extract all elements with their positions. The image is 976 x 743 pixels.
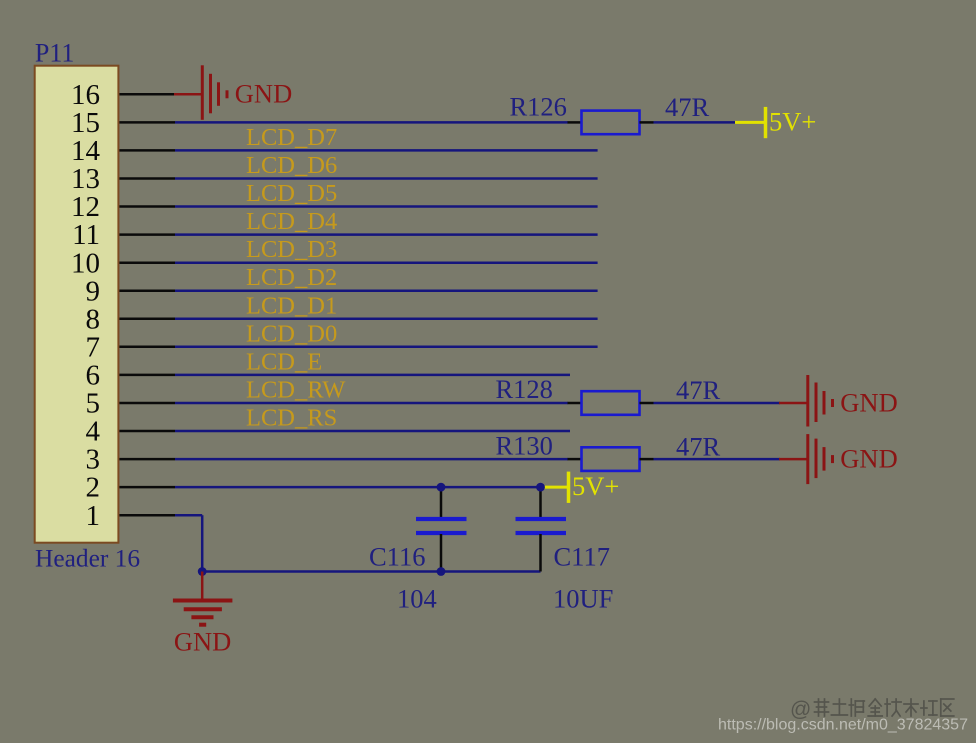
svg-text:C117: C117 <box>554 542 610 572</box>
pin 13 stub <box>119 177 175 180</box>
svg-text:LCD_RW: LCD_RW <box>246 377 346 404</box>
pin 14 stub <box>119 149 175 152</box>
svg-text:LCD_D7: LCD_D7 <box>246 124 337 151</box>
resistor R130 left pin <box>568 458 582 461</box>
pin 5 stub <box>119 402 175 405</box>
resistor R126 right pin <box>640 121 654 124</box>
wire net LCD_D3 <box>175 261 598 264</box>
junction C116/pin2 <box>437 483 446 492</box>
watermark glyph 3 <box>868 699 882 716</box>
pin 16 stub <box>119 93 175 96</box>
capacitor C117 top lead <box>539 487 542 518</box>
resistor R128 left pin <box>568 402 582 405</box>
watermark glyph 0 <box>815 699 829 716</box>
svg-text:P11: P11 <box>35 39 75 68</box>
resistor R130 right pin <box>640 458 654 461</box>
wire net LCD_D1 <box>175 318 598 321</box>
watermark glyph 4 <box>885 699 901 716</box>
junction pin1/ground <box>198 567 207 576</box>
svg-text:47R: 47R <box>676 432 721 462</box>
svg-text:R130: R130 <box>496 431 553 461</box>
junction C116/rail <box>437 567 446 576</box>
svg-text:1: 1 <box>86 500 101 532</box>
svg-text:47R: 47R <box>676 375 721 405</box>
capacitor C117 bottom lead <box>539 534 542 572</box>
svg-text:104: 104 <box>397 584 437 614</box>
svg-text:LCD_D6: LCD_D6 <box>246 152 337 179</box>
earth ground lead <box>201 572 204 601</box>
wire pin15 to R126 <box>175 121 568 124</box>
capacitor C117 plates <box>516 519 567 533</box>
earth ground bars <box>173 601 233 625</box>
watermark glyph 7 <box>941 699 954 716</box>
resistor R126 left pin <box>568 121 582 124</box>
power ground GND (R128) symbol <box>808 375 833 427</box>
wire pin16 to GND <box>174 93 202 96</box>
svg-text:10UF: 10UF <box>553 584 613 614</box>
svg-text:https://blog.csdn.net/m0_37824: https://blog.csdn.net/m0_37824357 <box>718 717 968 734</box>
svg-text:LCD_E: LCD_E <box>246 348 322 375</box>
watermark glyph 1 <box>831 699 847 715</box>
wire pin3 to R130 <box>175 458 568 461</box>
wire net LCD_D6 <box>175 177 598 180</box>
power ground GND (top) symbol <box>202 65 227 120</box>
resistor R128 body <box>582 391 640 415</box>
capacitor C116 top lead <box>440 487 443 518</box>
power ground GND (R130) symbol <box>808 434 833 484</box>
pin 4 stub <box>119 430 175 433</box>
svg-text:LCD_D5: LCD_D5 <box>246 180 337 207</box>
pin 15 stub <box>119 121 175 124</box>
wire pin1 horizontal <box>175 514 202 517</box>
wire net LCD_D5 <box>175 205 598 208</box>
svg-text:5V+: 5V+ <box>769 106 816 136</box>
wire red into GND (R130) <box>779 458 808 461</box>
pin 7 stub <box>119 346 175 349</box>
pin 9 stub <box>119 289 175 292</box>
resistor R126 body <box>582 111 640 135</box>
resistor R128 right pin <box>640 402 654 405</box>
svg-text:GND: GND <box>174 627 231 657</box>
wire pin1 vertical <box>201 515 204 571</box>
wire R130 to GND <box>654 458 781 461</box>
wire net LCD_D0 <box>175 346 598 349</box>
watermark glyph 5 <box>904 699 918 716</box>
svg-text:GND: GND <box>840 387 897 417</box>
svg-text:GND: GND <box>235 79 292 109</box>
junction C117/pin2 <box>536 483 545 492</box>
connector P11 body <box>35 66 119 543</box>
svg-text:LCD_D2: LCD_D2 <box>246 264 337 291</box>
wire bottom rail <box>202 570 540 573</box>
svg-text:Header 16: Header 16 <box>35 545 140 573</box>
wire net LCD_D7 <box>175 149 598 152</box>
pin 2 stub <box>119 486 175 489</box>
wire red into GND (R128) <box>779 402 808 405</box>
power 5V+ (R126) symbol <box>735 107 766 138</box>
svg-text:R128: R128 <box>496 374 553 404</box>
power 5V+ (pin2) symbol <box>544 472 569 503</box>
svg-text:47R: 47R <box>665 92 710 122</box>
svg-text:5V+: 5V+ <box>572 471 619 501</box>
wire R126 to 5V+ <box>654 121 737 124</box>
svg-text:LCD_D0: LCD_D0 <box>246 320 337 347</box>
resistor R130 body <box>582 447 640 471</box>
pin 12 stub <box>119 205 175 208</box>
svg-text:R126: R126 <box>510 92 567 122</box>
pin 10 stub <box>119 261 175 264</box>
wire pin2 rail <box>175 486 541 489</box>
svg-text:LCD_D1: LCD_D1 <box>246 292 337 319</box>
wire net LCD_RS <box>175 430 570 433</box>
pin 6 stub <box>119 374 175 377</box>
capacitor C116 plates <box>416 519 467 533</box>
wire net LCD_D4 <box>175 233 598 236</box>
pin 3 stub <box>119 458 175 461</box>
wire net LCD_E <box>175 374 570 377</box>
svg-text:C116: C116 <box>369 542 425 572</box>
pin 8 stub <box>119 318 175 321</box>
svg-text:GND: GND <box>840 443 897 473</box>
wire net LCD_D2 <box>175 289 598 292</box>
wire R128 to GND <box>654 402 781 405</box>
watermark glyph 6 <box>921 701 937 715</box>
svg-text:LCD_D4: LCD_D4 <box>246 208 337 235</box>
pin 11 stub <box>119 233 175 236</box>
wire net LCD_RW to R128 <box>175 402 568 405</box>
watermark glyph 2 <box>849 699 864 716</box>
pin 1 stub <box>119 514 175 517</box>
svg-text:LCD_D3: LCD_D3 <box>246 236 337 263</box>
capacitor C116 bottom lead <box>440 534 443 572</box>
svg-text:LCD_RS: LCD_RS <box>246 405 337 432</box>
